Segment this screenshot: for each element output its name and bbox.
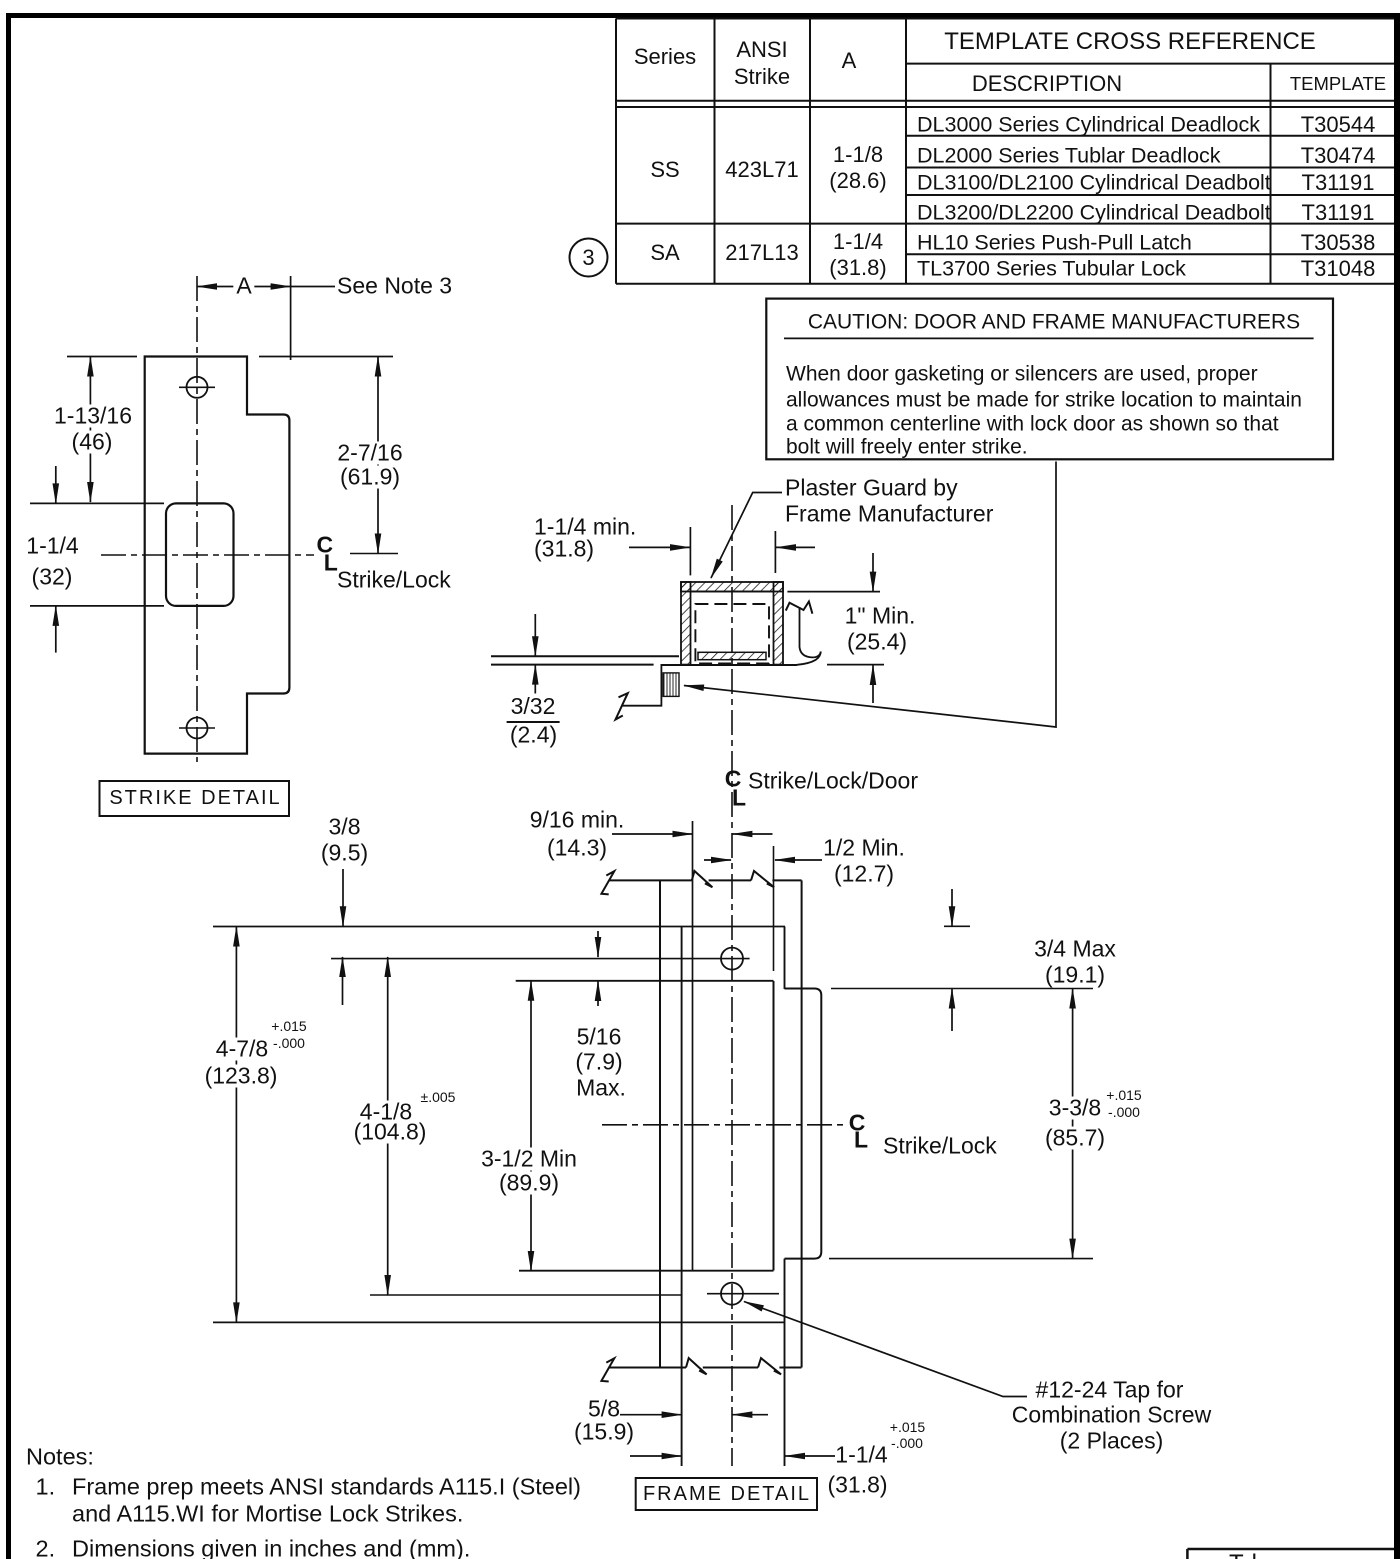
bottom right title block xyxy=(1187,1548,1394,1551)
hidden (dashed) strike box xyxy=(695,604,769,664)
caution leader xyxy=(684,462,1056,728)
extension lines xyxy=(67,356,137,358)
vertical centerline xyxy=(196,276,198,762)
vertical centerline xyxy=(731,505,733,1466)
tap leader xyxy=(744,1302,1027,1397)
tap note xyxy=(1036,1378,1184,1401)
screw holes xyxy=(721,948,743,970)
screw hole top xyxy=(187,377,208,398)
bottom break line xyxy=(610,1367,687,1369)
dim 1/2 min xyxy=(704,859,731,861)
strike plate outline xyxy=(145,357,290,754)
frame inner long line xyxy=(801,880,803,1367)
TABLE TEXT xyxy=(634,46,696,68)
strike detail texts xyxy=(233,275,254,298)
dim 1-13/16 xyxy=(89,357,91,503)
plaster guard label xyxy=(785,477,958,500)
frame detail texts xyxy=(530,809,625,832)
caution box text xyxy=(808,312,1300,333)
dim 4-1/8 xyxy=(387,957,389,1295)
step below frame xyxy=(622,665,662,706)
dim A xyxy=(197,286,291,288)
dim 3/32 xyxy=(534,614,536,656)
strike cutout xyxy=(166,503,234,606)
dim 4-7/8 xyxy=(235,927,237,1323)
screw hole bottom xyxy=(187,718,208,739)
title block fragment xyxy=(1229,1552,1257,1559)
top break line xyxy=(610,879,692,881)
dim 5/8 xyxy=(620,1414,682,1416)
dim 1-1/4 min xyxy=(689,527,691,575)
hook (frame stop strip) xyxy=(800,607,821,657)
dim 1-1/4 (32) xyxy=(55,466,57,503)
FRAME DETAIL label box xyxy=(636,1478,817,1510)
strike plate strip (hatched) xyxy=(698,652,766,659)
horizontal centerline xyxy=(101,554,314,556)
inner lines xyxy=(691,591,774,593)
break zigzag hook xyxy=(786,602,813,614)
dim 3/4 max xyxy=(944,925,970,927)
notes xyxy=(26,1445,94,1469)
dim 3/8 xyxy=(342,869,344,926)
dim 5/16 xyxy=(597,931,599,957)
dim 3-1/2 xyxy=(530,981,532,1271)
circled 3 xyxy=(570,239,608,277)
outer left line xyxy=(659,880,661,1367)
plaster guard leader xyxy=(711,493,782,579)
section texts xyxy=(534,516,636,539)
break zigzag left step xyxy=(616,693,628,719)
plate left edge + ext xyxy=(681,927,683,1467)
horizontals xyxy=(213,926,785,928)
dim 3-3/8 xyxy=(1072,989,1074,1259)
STRIKE DETAIL label box xyxy=(100,781,290,816)
caution box xyxy=(766,299,1333,460)
dim 2-7/16 xyxy=(377,357,379,554)
dim 1-1/4 bottom xyxy=(630,1455,682,1457)
door lines xyxy=(491,655,679,657)
dim 1in min xyxy=(787,591,880,593)
frame channel hatched walls xyxy=(681,582,783,592)
TABLE GRID xyxy=(616,19,1394,284)
cutout left edge + ext xyxy=(692,821,694,1271)
cutout right edge + ext xyxy=(773,846,775,971)
dim 9/16 xyxy=(612,833,693,835)
stop tab xyxy=(785,989,822,1259)
plate right edge xyxy=(784,927,786,990)
frame soffit line xyxy=(661,664,798,666)
silencer block (vertical hatch) xyxy=(663,673,679,697)
